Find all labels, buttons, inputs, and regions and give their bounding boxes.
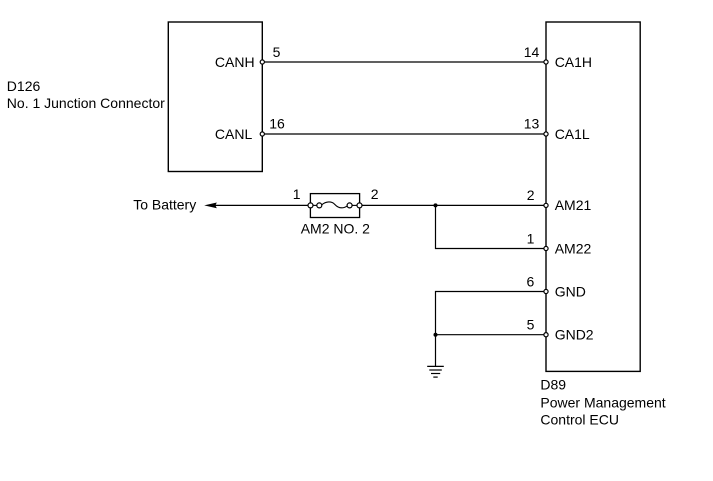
ECU box D89 bbox=[546, 22, 640, 371]
fuse terminal circle pin 1 bbox=[308, 203, 313, 208]
svg-text:CA1H: CA1H bbox=[555, 54, 592, 70]
pin circle CANH 5 bbox=[260, 60, 264, 64]
pin circle GND 6 bbox=[544, 289, 548, 293]
svg-text:To Battery: To Battery bbox=[133, 197, 196, 213]
svg-text:D126: D126 bbox=[7, 78, 41, 94]
fuse element circle right bbox=[347, 203, 352, 208]
svg-text:D89: D89 bbox=[540, 377, 566, 393]
connector box D126 bbox=[168, 22, 262, 172]
pin circle GND2 5 bbox=[544, 333, 548, 337]
svg-text:5: 5 bbox=[527, 316, 535, 332]
wire branch vertical to AM22 bbox=[436, 205, 547, 248]
pin circle CA1H 14 bbox=[544, 60, 548, 64]
svg-text:16: 16 bbox=[269, 116, 285, 132]
fuse AM2 NO. 2 body bbox=[310, 194, 359, 218]
svg-text:GND2: GND2 bbox=[555, 326, 594, 342]
wire CANH to CA1H bbox=[262, 61, 546, 63]
wire GND bbox=[436, 292, 547, 367]
svg-text:AM2 NO. 2: AM2 NO. 2 bbox=[301, 221, 370, 237]
pin circle AM21 2 bbox=[544, 203, 548, 207]
fuse terminal circle pin 2 bbox=[357, 203, 362, 208]
svg-text:14: 14 bbox=[524, 44, 540, 60]
junction dot at AM21 branch bbox=[434, 203, 438, 207]
arrow to battery bbox=[204, 203, 217, 209]
ground symbol bbox=[427, 366, 444, 377]
svg-text:2: 2 bbox=[371, 186, 379, 202]
junction dot at GND2 branch bbox=[434, 333, 438, 337]
fuse element circle left bbox=[317, 203, 322, 208]
svg-text:1: 1 bbox=[527, 230, 535, 246]
svg-text:CA1L: CA1L bbox=[555, 126, 590, 142]
svg-text:CANH: CANH bbox=[215, 54, 255, 70]
svg-text:Control ECU: Control ECU bbox=[540, 411, 619, 427]
pin circle CA1L 13 bbox=[544, 132, 548, 136]
svg-text:13: 13 bbox=[524, 116, 540, 132]
wire CANL to CA1L bbox=[262, 133, 546, 135]
pin circle AM22 1 bbox=[544, 246, 548, 250]
svg-text:Power Management: Power Management bbox=[540, 395, 665, 411]
fuse inner link line bbox=[311, 204, 321, 206]
svg-text:2: 2 bbox=[527, 187, 535, 203]
svg-text:No. 1 Junction Connector: No. 1 Junction Connector bbox=[7, 95, 165, 111]
svg-text:AM21: AM21 bbox=[555, 197, 592, 213]
svg-text:CANL: CANL bbox=[215, 126, 253, 142]
fuse element wavy line bbox=[322, 202, 348, 208]
wire battery line to AM21 bbox=[214, 204, 547, 206]
svg-text:GND: GND bbox=[555, 283, 586, 299]
svg-text:6: 6 bbox=[527, 273, 535, 289]
wire GND2 bbox=[436, 334, 547, 336]
svg-text:5: 5 bbox=[273, 44, 281, 60]
pin circle CANL 16 bbox=[260, 132, 264, 136]
svg-text:1: 1 bbox=[293, 186, 301, 202]
svg-text:AM22: AM22 bbox=[555, 240, 592, 256]
